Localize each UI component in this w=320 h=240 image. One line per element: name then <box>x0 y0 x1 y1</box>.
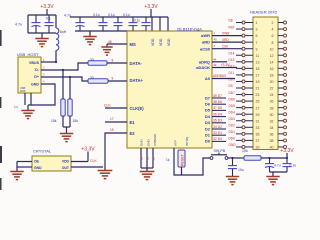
svg-text:36: 36 <box>270 132 274 136</box>
wire net RST to pin 3 <box>236 28 242 30</box>
svg-text:E1: E1 <box>130 120 136 125</box>
wire VDD pin 2 <box>159 17 161 31</box>
wire net DD0 to pin 37 <box>236 139 242 141</box>
svg-text:35: 35 <box>256 132 260 136</box>
svg-text:2: 2 <box>272 21 274 25</box>
svg-text:25: 25 <box>256 100 260 104</box>
wire switch bar <box>211 154 227 156</box>
ground G9 <box>226 177 239 185</box>
wire net DD7 to pin 23 <box>236 94 242 96</box>
svg-text:OE: OE <box>34 159 40 163</box>
svg-text:D6: D6 <box>205 102 211 107</box>
svg-text:19: 19 <box>256 80 260 84</box>
wire net GND to pin 39 <box>236 146 242 148</box>
ground G4 <box>98 171 113 179</box>
ground G10 <box>266 177 279 185</box>
wire ATP pin to switch <box>174 148 210 175</box>
svg-text:DD2: DD2 <box>229 124 236 128</box>
svg-text:18: 18 <box>270 74 274 78</box>
svg-text:13: 13 <box>256 60 260 64</box>
wire join GND pins <box>141 167 153 169</box>
svg-text:10: 10 <box>270 47 274 51</box>
wire net DD3 to pin 31 <box>236 120 242 122</box>
ground G8 <box>60 134 73 142</box>
wire P4 stem <box>87 152 89 162</box>
wire net DD4 to pin 29 <box>236 113 242 115</box>
capacitor C4 0.1u <box>99 17 108 31</box>
svg-text:D7: D7 <box>205 95 211 100</box>
capacitor C10 0.1u <box>283 158 292 172</box>
svg-text:34 D2: 34 D2 <box>213 125 222 129</box>
svg-text:D9: D9 <box>229 84 233 88</box>
svg-text:MINI: MINI <box>20 90 26 93</box>
wire net DD6 to pin 25 <box>236 100 242 102</box>
svg-text:MS: MS <box>130 42 136 47</box>
svg-text:17: 17 <box>256 74 260 78</box>
wire VDD pin 3 <box>167 17 169 31</box>
ground G6 <box>101 47 112 55</box>
svg-text:DD5: DD5 <box>229 104 236 108</box>
wire aDRQ stub <box>212 61 227 63</box>
svg-text:E2: E2 <box>130 131 136 136</box>
svg-text:D+: D+ <box>34 75 39 79</box>
svg-text:43: 43 <box>213 63 217 67</box>
svg-text:45: 45 <box>214 38 218 42</box>
svg-text:1: 1 <box>256 21 258 25</box>
svg-text:32: 32 <box>152 156 156 160</box>
svg-text:37 D5: 37 D5 <box>213 106 222 110</box>
inductor L1 6uH <box>56 28 59 50</box>
capacitor C6 0.1u <box>129 17 138 31</box>
svg-text:9: 9 <box>112 77 114 81</box>
wire D- to R1 <box>41 63 88 70</box>
wire A0 bus stub <box>212 78 235 80</box>
svg-text:XRD: XRD <box>222 38 229 42</box>
svg-text:40: 40 <box>270 146 274 150</box>
svg-text:DATA+: DATA+ <box>130 78 144 83</box>
wire D2 stub <box>212 128 226 130</box>
svg-text:12: 12 <box>270 54 274 58</box>
svg-text:28: 28 <box>270 106 274 110</box>
svg-text:15k: 15k <box>51 119 57 123</box>
wire E2 to ground <box>105 133 127 170</box>
svg-text:4.7u: 4.7u <box>15 23 22 27</box>
svg-text:14: 14 <box>270 60 274 64</box>
wire R2 to DATA+ <box>108 80 127 82</box>
ground G2 <box>83 37 96 45</box>
capacitor C7 0.1u <box>142 17 151 31</box>
svg-text:CLK(E): CLK(E) <box>130 106 145 111</box>
wire aWR to header <box>212 35 242 37</box>
svg-text:D14: D14 <box>229 51 235 55</box>
wire USB GND <box>28 84 55 105</box>
svg-text:0.1u: 0.1u <box>108 13 115 17</box>
svg-text:aRD: aRD <box>202 40 210 45</box>
svg-text:39 D7: 39 D7 <box>213 94 222 98</box>
svg-text:+3.3V: +3.3V <box>221 63 231 67</box>
svg-text:aDRQ: aDRQ <box>199 59 210 64</box>
svg-text:29: 29 <box>256 113 260 117</box>
svg-text:23: 23 <box>256 93 260 97</box>
svg-text:26: 26 <box>270 100 274 104</box>
wire OUT pin <box>71 166 103 168</box>
ground G7 <box>21 111 34 119</box>
wire net DD5 to pin 27 <box>236 107 242 109</box>
svg-text:4.7u: 4.7u <box>64 14 71 18</box>
svg-text:35 D3: 35 D3 <box>213 119 222 123</box>
wire inductor to VBUS <box>55 50 57 62</box>
svg-text:5: 5 <box>256 34 258 38</box>
svg-text:8: 8 <box>272 41 274 45</box>
wire D1 stub <box>212 134 226 136</box>
svg-text:GND: GND <box>229 143 237 147</box>
svg-text:8: 8 <box>112 59 114 63</box>
wire net D14 to pin 11 <box>236 54 242 56</box>
svg-text:GL811E-04A: GL811E-04A <box>177 27 202 32</box>
wire osc GND <box>17 166 32 168</box>
svg-text:A0: A0 <box>205 76 211 81</box>
wire IC ground drop <box>146 168 148 171</box>
wire D6 stub <box>212 103 226 105</box>
svg-text:21: 21 <box>256 87 260 91</box>
wire D+ to R4 <box>69 77 71 99</box>
ground G3 <box>140 172 155 180</box>
svg-text:0.1: 0.1 <box>46 17 51 21</box>
svg-text:38 D6: 38 D6 <box>213 100 222 104</box>
wire caps ground drop <box>272 172 274 176</box>
resistor R2 33 <box>88 79 108 83</box>
svg-text:VDD: VDD <box>62 159 70 163</box>
svg-text:CLK: CLK <box>90 159 97 163</box>
svg-text:RESET: RESET <box>180 153 184 166</box>
svg-text:D4: D4 <box>205 114 211 119</box>
svg-text:17: 17 <box>110 117 114 121</box>
ground G1 <box>35 39 48 47</box>
svg-text:D2: D2 <box>205 126 211 131</box>
svg-text:20: 20 <box>270 80 274 84</box>
svg-text:6: 6 <box>272 34 274 38</box>
svg-text:32 D0: 32 D0 <box>213 137 222 141</box>
svg-text:0.1u: 0.1u <box>134 19 140 23</box>
svg-text:30: 30 <box>270 113 274 117</box>
svg-text:11: 11 <box>256 54 260 58</box>
ground G5 <box>10 172 23 180</box>
svg-text:15k: 15k <box>73 119 79 123</box>
svg-text:D13: D13 <box>229 58 235 62</box>
svg-text:33: 33 <box>90 58 94 62</box>
svg-text:SW-PB: SW-PB <box>214 149 226 153</box>
wire net DD2 to pin 33 <box>236 126 242 128</box>
svg-text:VDD: VDD <box>159 38 163 46</box>
wire switch actuator <box>218 153 220 155</box>
svg-text:GND: GND <box>147 139 151 147</box>
svg-text:HEADER 20X2: HEADER 20X2 <box>250 10 278 15</box>
svg-text:D11: D11 <box>229 71 235 75</box>
resistor R1 33 <box>88 61 107 65</box>
wire to inductor <box>55 15 57 28</box>
svg-text:D3: D3 <box>205 120 211 125</box>
wire D+ to R2 <box>41 77 88 81</box>
resistor R4 15k <box>68 99 72 116</box>
svg-text:aCS0: aCS0 <box>200 46 211 51</box>
svg-text:24: 24 <box>270 93 274 97</box>
svg-text:INTRQ: INTRQ <box>185 136 189 146</box>
svg-text:D5: D5 <box>205 108 211 113</box>
wire VDD pin <box>71 161 88 163</box>
connector J2 HEADER 20X2 <box>253 17 278 150</box>
wire net D11 to pin 17 <box>236 74 242 76</box>
svg-text:1k: 1k <box>166 158 170 162</box>
svg-text:34: 34 <box>270 126 274 130</box>
wire ground drop <box>89 31 91 36</box>
svg-text:USB_HOST: USB_HOST <box>17 52 39 57</box>
wire GND pin b <box>146 148 148 168</box>
wire net D10 to pin 19 <box>236 80 242 82</box>
wire switch to R6 <box>228 157 244 159</box>
svg-text:D8: D8 <box>229 19 233 23</box>
svg-text:15: 15 <box>256 67 260 71</box>
wire GND pin a <box>140 148 142 168</box>
wire osc ground leg <box>16 162 18 172</box>
svg-text:16: 16 <box>270 67 274 71</box>
svg-text:31: 31 <box>146 156 150 160</box>
wire E1 stub <box>105 121 127 123</box>
IC U1 GL811E <box>127 31 212 148</box>
wire shield pin 2 <box>30 93 32 105</box>
wire R3 bottom <box>62 116 64 127</box>
svg-text:RST: RST <box>229 25 235 29</box>
svg-text:39: 39 <box>256 146 260 150</box>
svg-text:aDACK: aDACK <box>196 65 210 70</box>
svg-text:CLK: CLK <box>104 104 111 108</box>
svg-text:GND: GND <box>140 139 144 147</box>
wire VDD pin 1 <box>151 17 153 31</box>
capacitor C5 0.1u <box>114 17 123 31</box>
svg-text:DD1: DD1 <box>229 130 236 134</box>
wire aCS to header <box>212 48 242 50</box>
capacitor C8 10u <box>228 158 237 176</box>
svg-text:32: 32 <box>270 119 274 123</box>
scan artifact smudges on left edge <box>0 30 2 190</box>
wire cap bank bottom rail <box>75 30 146 32</box>
svg-text:4: 4 <box>272 28 274 32</box>
svg-text:OUT: OUT <box>62 166 70 170</box>
wire D- to R3 <box>62 70 64 99</box>
wire shield ground drop <box>27 105 29 110</box>
wire P2 stem <box>150 9 152 17</box>
svg-text:31: 31 <box>256 119 260 123</box>
wire ground drop <box>41 33 43 38</box>
wire bottom rail <box>28 32 56 34</box>
svg-text:aWR: aWR <box>201 33 210 38</box>
svg-text:CS0: CS0 <box>222 45 228 49</box>
svg-text:10k: 10k <box>242 149 248 153</box>
svg-text:0.1u: 0.1u <box>123 13 130 17</box>
wire net D13 to pin 13 <box>236 61 242 63</box>
capacitor C1 4.7u <box>32 15 41 33</box>
svg-text:VBUS: VBUS <box>29 61 40 65</box>
svg-text:GND: GND <box>31 82 39 86</box>
svg-text:GND: GND <box>34 166 42 170</box>
svg-text:XWR: XWR <box>222 31 230 35</box>
wire MS ground drop <box>106 44 108 47</box>
oscillator Y1 CRYSTAL <box>32 156 71 171</box>
capacitor C3 4.7u <box>76 17 85 31</box>
wire join 15k <box>63 126 70 128</box>
wire P1 stem <box>46 9 48 15</box>
wire net D9 to pin 21 <box>236 87 242 89</box>
wire D7 stub <box>212 97 226 99</box>
wire R5 bottom <box>181 167 183 175</box>
svg-text:DD6: DD6 <box>229 97 236 101</box>
svg-text:37: 37 <box>256 139 260 143</box>
wire aDACK to +3.3V <box>212 67 237 69</box>
wire top-left rail <box>28 14 56 16</box>
svg-text:36 D4: 36 D4 <box>213 112 222 116</box>
svg-text:DD4: DD4 <box>229 110 236 114</box>
svg-text:D0: D0 <box>205 139 211 144</box>
svg-text:10u: 10u <box>238 168 244 172</box>
svg-text:0.1u: 0.1u <box>290 164 297 168</box>
wire D0 stub <box>212 140 226 142</box>
resistor R5 1k <box>178 150 185 167</box>
wire OE <box>17 161 32 163</box>
wire net D12 to pin 15 <box>236 67 242 69</box>
wire +3.3V rail <box>70 16 168 18</box>
svg-text:DD3: DD3 <box>229 117 236 121</box>
svg-text:D1: D1 <box>205 133 211 138</box>
wire R1 to DATA- <box>107 62 127 64</box>
capacitor C9 4.7u <box>265 158 274 172</box>
resistor R6 10k <box>244 156 261 160</box>
svg-text:CRYSTAL: CRYSTAL <box>33 149 52 154</box>
wire aRD to header <box>212 41 242 43</box>
wire join caps <box>270 171 288 173</box>
capacitor C2 0.1u <box>45 15 54 33</box>
svg-text:27: 27 <box>256 106 260 110</box>
svg-text:15: 15 <box>110 128 114 132</box>
svg-text:33 D1: 33 D1 <box>213 131 222 135</box>
svg-text:USBGND: USBGND <box>153 134 157 146</box>
wire D5 stub <box>212 109 226 111</box>
wire 15k ground drop <box>66 127 68 133</box>
svg-text:0.1u: 0.1u <box>93 13 100 17</box>
wire CLK pin stub <box>105 107 127 109</box>
svg-text:DD7: DD7 <box>229 91 236 95</box>
svg-text:33: 33 <box>90 76 94 80</box>
svg-text:6uH: 6uH <box>60 30 67 34</box>
svg-text:33: 33 <box>256 126 260 130</box>
resistor R3 15k <box>61 99 65 116</box>
svg-text:22: 22 <box>270 87 274 91</box>
wire net D8 to pin 1 <box>236 22 242 24</box>
svg-text:48: 48 <box>108 40 112 44</box>
svg-text:3: 3 <box>256 28 258 32</box>
wire R4 bottom <box>69 116 71 127</box>
wire net DD1 to pin 35 <box>236 133 242 135</box>
svg-text:4.7u: 4.7u <box>274 164 281 168</box>
svg-text:DD0: DD0 <box>229 137 236 141</box>
svg-text:VDD: VDD <box>151 38 155 46</box>
svg-text:7: 7 <box>256 41 258 45</box>
svg-text:ADRBUS: ADRBUS <box>213 74 226 78</box>
svg-text:38: 38 <box>270 139 274 143</box>
wire MS pin <box>107 43 127 45</box>
wire GND pin c <box>152 148 154 168</box>
wire P3 stem <box>286 153 288 158</box>
svg-text:30: 30 <box>140 156 144 160</box>
svg-text:5 6: 5 6 <box>14 105 18 109</box>
wire left leg <box>27 15 29 33</box>
connector J1 USB_HOST <box>18 57 41 93</box>
svg-text:44: 44 <box>213 57 217 61</box>
svg-text:9: 9 <box>256 47 258 51</box>
wire shield pin 1 <box>24 93 26 105</box>
svg-text:VDD: VDD <box>167 38 171 46</box>
wire D3 stub <box>212 122 226 124</box>
wire R6 to +3.3V <box>261 157 287 159</box>
wire VBUS <box>41 61 56 63</box>
wire D4 stub <box>212 116 226 118</box>
svg-text:DATA-: DATA- <box>130 61 143 66</box>
svg-text:ATP: ATP <box>174 140 178 146</box>
